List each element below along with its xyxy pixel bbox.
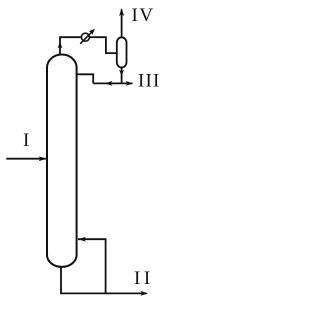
wire: overhead product line IV (121, 10, 123, 38)
arrowhead down mid-line (119, 70, 124, 76)
diagonal arrow through circle (80, 31, 93, 44)
wire: distillate header line (93, 82, 132, 84)
reflux drum B (capsule vessel) (117, 37, 127, 67)
arrowhead right II (140, 291, 148, 296)
arrowhead up IV (119, 8, 124, 16)
svg-text:I: I (23, 130, 29, 151)
wire: feed line I (6, 158, 46, 160)
arrowhead right to III (126, 81, 134, 86)
arrowhead of diagonal arrow (89, 29, 95, 35)
arrowhead left (reflux direction) (105, 81, 113, 86)
column C (distillation column) (47, 55, 77, 267)
arrowhead right feed (39, 156, 47, 161)
svg-text:IV: IV (132, 5, 155, 26)
wire: top vapor riser from column apex to condenser inlet (60, 37, 117, 56)
valve/cooler symbol (circle) (81, 33, 89, 41)
wire: reboiler riser and vapor return (78, 239, 106, 293)
arrowhead up on riser (58, 42, 63, 49)
arrowhead left into column (78, 237, 86, 242)
wire: drum bottom downcomer (121, 67, 123, 84)
svg-text:II: II (134, 268, 154, 289)
svg-text:III: III (138, 71, 161, 92)
wire: bottoms outlet and header to II (61, 266, 147, 293)
wire: reflux return into column (77, 74, 93, 83)
